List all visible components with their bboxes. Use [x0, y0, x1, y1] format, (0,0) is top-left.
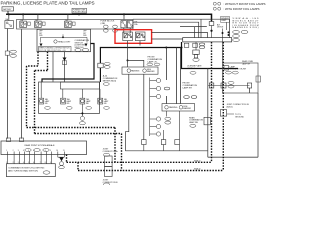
- svg-text:BATTERY: BATTERY: [3, 8, 12, 11]
- svg-text:LAMP: LAMP: [221, 19, 227, 22]
- svg-text:DEVICE: DEVICE: [217, 27, 224, 29]
- svg-text:10: 10: [56, 150, 58, 152]
- svg-text:3: 3: [18, 150, 19, 152]
- svg-text:9: 9: [50, 150, 51, 152]
- svg-text:PARKING: PARKING: [131, 70, 140, 73]
- svg-text:SMA-10: SMA-10: [194, 159, 201, 162]
- svg-text:6: 6: [33, 150, 34, 152]
- svg-text:MARKER: MARKER: [183, 107, 191, 110]
- svg-text:LAMP LH: LAMP LH: [187, 67, 196, 70]
- svg-text:HOLDER (E50): HOLDER (E50): [73, 12, 86, 14]
- svg-text:LAMP RH: LAMP RH: [189, 121, 198, 124]
- svg-text:GROUND: GROUND: [235, 116, 244, 118]
- svg-text:(J/B): (J/B): [101, 23, 106, 25]
- svg-text:5: 5: [28, 150, 29, 152]
- svg-text:AND TURN SIGNAL SWITCH): AND TURN SIGNAL SWITCH): [8, 169, 38, 172]
- svg-text:COMBINATION SWITCH (LIGHTING: COMBINATION SWITCH (LIGHTING: [8, 167, 44, 170]
- svg-text:4: 4: [23, 150, 24, 152]
- svg-text:SMA-16: SMA-16: [194, 168, 201, 171]
- svg-text:CONNECTOR-A: CONNECTOR-A: [103, 150, 119, 153]
- svg-text:HARNESS SIDE): HARNESS SIDE): [233, 26, 259, 29]
- svg-text:PARKING, LICENSE PLATE AND TAI: PARKING, LICENSE PLATE AND TAIL LAMPS: [1, 0, 95, 5]
- svg-text:MARKER: MARKER: [147, 70, 155, 73]
- svg-text:11: 11: [63, 150, 65, 152]
- svg-text:METER (M24): METER (M24): [103, 80, 117, 82]
- svg-text:8: 8: [45, 150, 46, 152]
- svg-text:LAMP LH: LAMP LH: [148, 60, 157, 63]
- svg-text:2: 2: [13, 150, 14, 152]
- svg-text:REAR PRINT SYSTEM AREA-B: REAR PRINT SYSTEM AREA-B: [25, 144, 55, 147]
- svg-text:PARKING: PARKING: [169, 106, 178, 109]
- svg-text:1ST OR 2ND POSITION : ON: 1ST OR 2ND POSITION : ON: [39, 50, 66, 52]
- svg-text:HEADLIGHT: HEADLIGHT: [58, 40, 71, 43]
- svg-text:1: 1: [6, 150, 7, 152]
- svg-text:LAMP RH: LAMP RH: [183, 86, 193, 89]
- svg-text:7: 7: [40, 150, 41, 152]
- svg-text:: WITHOUT FRONT FOG LAMPS: : WITHOUT FRONT FOG LAMPS: [224, 2, 266, 6]
- svg-text:(B202): (B202): [227, 106, 233, 108]
- svg-text:: WITH FRONT FOG LAMPS: : WITH FRONT FOG LAMPS: [224, 7, 260, 11]
- svg-text:CONNECTOR-RH: CONNECTOR-RH: [230, 69, 247, 71]
